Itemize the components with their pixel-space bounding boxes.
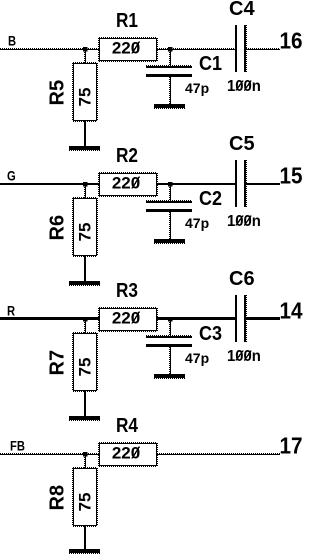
svg-text:17: 17 xyxy=(280,432,303,458)
svg-text:G: G xyxy=(7,168,16,183)
svg-text:100n: 100n xyxy=(227,213,261,231)
svg-text:B: B xyxy=(8,33,16,48)
svg-text:R7: R7 xyxy=(47,350,69,376)
svg-text:FB: FB xyxy=(10,438,25,453)
svg-text:R4: R4 xyxy=(116,414,139,437)
svg-text:C1: C1 xyxy=(199,53,222,75)
svg-text:15: 15 xyxy=(280,162,303,188)
svg-text:R2: R2 xyxy=(116,144,138,167)
svg-text:C2: C2 xyxy=(199,188,222,210)
svg-text:100n: 100n xyxy=(227,78,261,96)
svg-text:75: 75 xyxy=(76,88,95,107)
svg-text:75: 75 xyxy=(76,223,95,242)
svg-text:47p: 47p xyxy=(185,350,209,366)
svg-text:C6: C6 xyxy=(229,268,255,290)
svg-text:75: 75 xyxy=(76,358,95,377)
svg-text:R3: R3 xyxy=(116,279,138,302)
svg-text:R6: R6 xyxy=(47,215,69,241)
svg-text:R: R xyxy=(7,303,15,318)
svg-text:14: 14 xyxy=(280,297,304,323)
svg-text:47p: 47p xyxy=(185,80,209,96)
svg-text:R8: R8 xyxy=(47,485,69,511)
svg-text:C3: C3 xyxy=(199,323,222,345)
svg-text:R1: R1 xyxy=(116,9,138,32)
svg-text:R5: R5 xyxy=(47,80,69,106)
svg-text:C5: C5 xyxy=(229,133,255,155)
svg-text:C4: C4 xyxy=(229,0,255,20)
svg-text:100n: 100n xyxy=(227,348,261,366)
svg-text:75: 75 xyxy=(76,493,95,512)
svg-text:47p: 47p xyxy=(185,215,209,231)
svg-text:16: 16 xyxy=(280,27,303,53)
